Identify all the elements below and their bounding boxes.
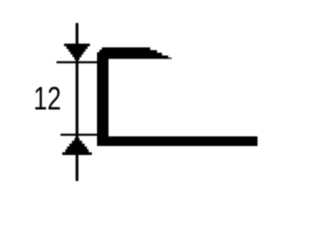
dimension line (vertical) <box>76 23 79 181</box>
arrowhead up (bottom) <box>62 138 92 155</box>
svg-text:12: 12 <box>33 81 61 117</box>
channel profile cross-section <box>97 47 258 146</box>
arrowhead down (top) <box>64 44 90 60</box>
extension tick bottom <box>61 134 101 136</box>
extension tick top <box>57 61 99 63</box>
